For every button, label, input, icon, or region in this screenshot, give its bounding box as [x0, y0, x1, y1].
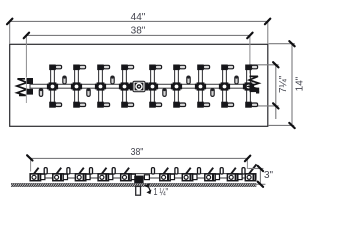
svg-text:38": 38" — [131, 147, 144, 158]
svg-text:7¼": 7¼" — [277, 75, 289, 93]
svg-text:1 ¼": 1 ¼" — [154, 186, 169, 198]
svg-text:3": 3" — [264, 170, 274, 181]
svg-text:14": 14" — [294, 76, 305, 91]
svg-text:44": 44" — [131, 12, 146, 23]
svg-text:38": 38" — [131, 26, 146, 37]
